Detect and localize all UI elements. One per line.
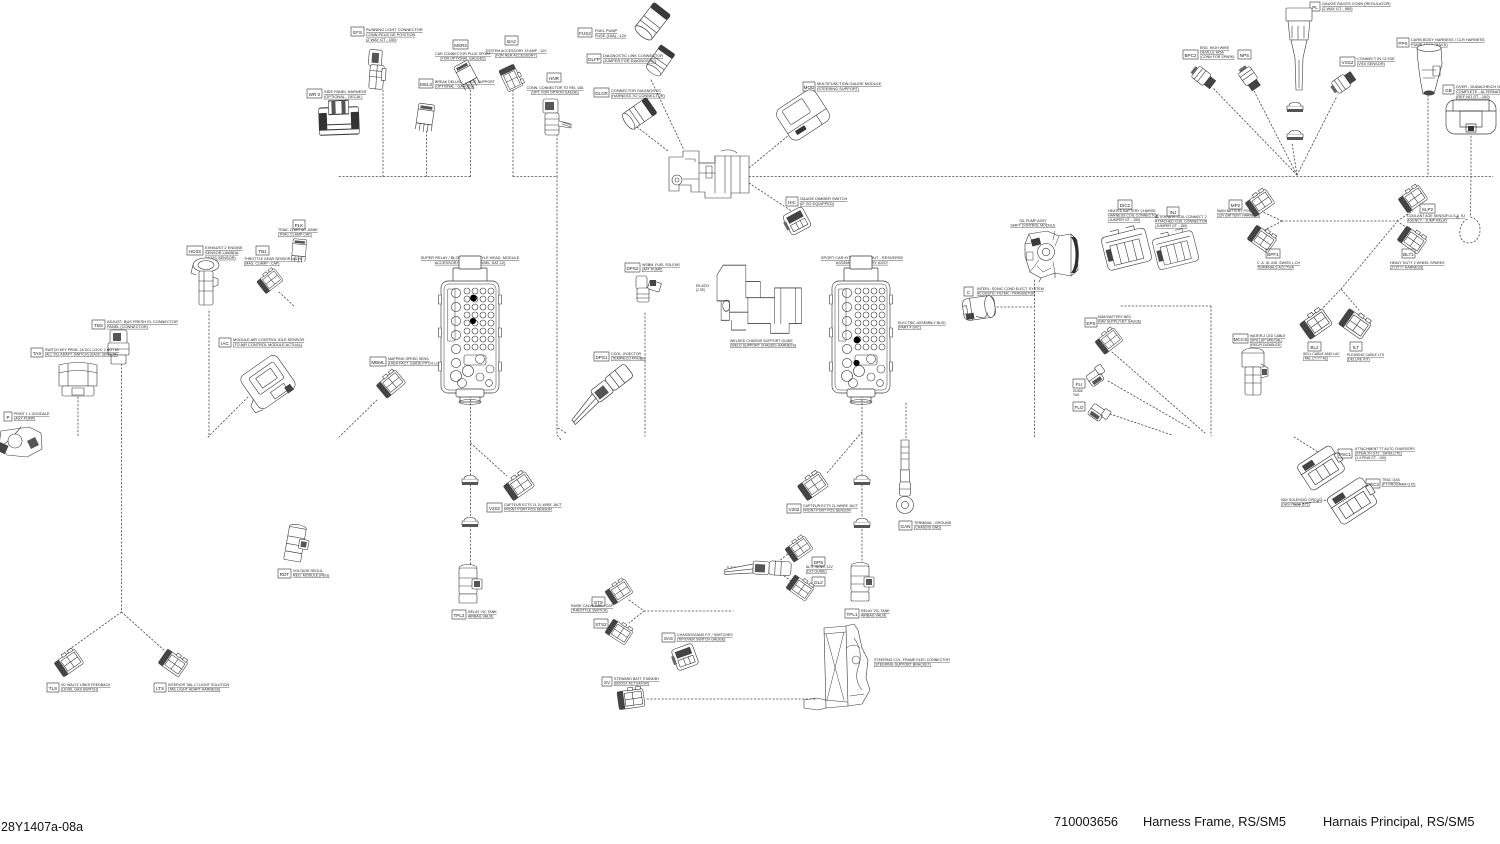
wire capacitor link [997,306,1034,308]
text DPS1 description [611,352,646,361]
label HO2S [187,246,203,255]
wire HO2S drop [208,311,210,437]
connector V2S2 [502,469,535,501]
svg-text:WSBM. FUEL SOLENS: WSBM. FUEL SOLENS [642,263,680,267]
connector TBS [108,330,129,364]
text SV description [614,677,660,686]
svg-text:DPS1: DPS1 [595,355,607,360]
label MSR2 [453,40,468,49]
svg-text:MBML: MBML [371,360,385,365]
svg-text:NAV SOLENOID CIRCUIT: NAV SOLENOID CIRCUIT [1281,498,1323,502]
connector V202 [796,469,829,501]
text RDT description [293,569,329,578]
wire EPS diagonal [1112,352,1205,433]
connector FUS2 fuse holder lower [644,44,675,78]
svg-text:GB: GB [1445,88,1452,93]
text fuse box 1 header [421,255,520,265]
wire STS horizontal [644,610,733,612]
text LTS description [168,683,229,692]
wire HNR line down to mid fold [557,177,562,442]
label PSC2 [1366,479,1380,488]
svg-text:DIC2: DIC2 [1120,203,1131,208]
throttle body assembly [1025,231,1079,282]
clip line2 upper [854,475,870,485]
svg-text:MAIN BATTERY POS: MAIN BATTERY POS [1217,209,1252,213]
fuse box 2 [830,256,893,405]
svg-text:(2 WAY GT - 950): (2 WAY GT - 950) [1322,6,1353,11]
label GAN [899,521,912,530]
label FLO [1073,402,1085,411]
svg-text:710003656: 710003656 [1054,814,1118,829]
text MCCS description [1250,334,1286,347]
svg-text:DEVILLE HI5A: DEVILLE HI5A [1200,51,1224,55]
label PLK [293,220,305,229]
svg-text:THROTTLE GEAR SENSOR VALVE: THROTTLE GEAR SENSOR VALVE [244,257,303,261]
svg-text:BPF1: BPF1 [1267,252,1279,257]
wire loop terminal [1460,217,1480,243]
svg-text:STEWARD BATT STANDBY: STEWARD BATT STANDBY [614,677,660,681]
svg-text:OIL PUMP ASSY: OIL PUMP ASSY [1019,219,1047,223]
svg-text:ALTI. SENS. 12V: ALTI. SENS. 12V [806,565,833,569]
connector EPS [1093,326,1123,355]
svg-text:PPS: PPS [1398,41,1407,46]
wire TB1 short diagonal [279,292,295,307]
wire STS fork [629,600,644,623]
ecu mounting bracket [804,624,870,710]
svg-text:(BOOST ACTUATOR): (BOOST ACTUATOR) [614,682,649,686]
svg-text:EFS: EFS [353,30,362,35]
connector TAS [59,363,97,397]
svg-text:BA2: BA2 [507,39,516,44]
svg-text:VD WALTZ LINES FEEDBACK: VD WALTZ LINES FEEDBACK [61,683,111,687]
label SAS [662,633,675,642]
svg-text:(CHASSIS GND): (CHASSIS GND) [914,526,941,530]
svg-text:V2S2: V2S2 [489,506,501,511]
svg-text:EPS: EPS [1086,321,1095,326]
wire bus down to loop [1470,177,1473,218]
wire junction to SLP2 [1397,211,1413,221]
wire BA2 drop [512,90,514,177]
svg-text:ALTERNATE COIL CONNECT 2: ALTERNATE COIL CONNECT 2 [1155,215,1207,219]
text PSC1 description [1355,447,1415,460]
wire MSL3 drop [426,131,428,177]
label GB [1443,85,1454,94]
svg-text:PANEL (CONNECTOR): PANEL (CONNECTOR) [107,324,149,329]
label TLS [47,683,59,692]
svg-text:WELDED CHASSIS SUPPORT GUIDE: WELDED CHASSIS SUPPORT GUIDE [730,339,793,343]
connector PPS funnel [1417,45,1442,96]
wire TAS short drop [77,397,79,436]
label PSC1 [1338,449,1352,458]
svg-text:ATTACHMENT TT AUTO CHARGERS: ATTACHMENT TT AUTO CHARGERS [1355,447,1415,451]
text P description [14,412,50,421]
label TBS [92,320,105,329]
svg-text:CAPTEUR ECTS 2L 2L WIRE JACT: CAPTEUR ECTS 2L 2L WIRE JACT [504,503,563,507]
text INJ description [1155,215,1208,228]
wire sub-bus MP2/SLP2 [1282,220,1397,222]
svg-text:MAPPING SPEED SENS.: MAPPING SPEED SENS. [388,357,430,361]
text PL description [1322,1,1391,11]
text C description [977,287,1044,296]
svg-text:HARNESS COIL CONNECTOR: HARNESS COIL CONNECTOR [1108,214,1159,218]
text EFS description [366,27,423,42]
svg-text:(DELUXE KIT): (DELUXE KIT) [1347,358,1370,362]
svg-text:(FT PROGRAM GT2): (FT PROGRAM GT2) [1382,483,1415,487]
svg-text:(REF NO GT - 100): (REF NO GT - 100) [1456,94,1490,99]
svg-text:(HARNESS TO CONNECTOR): (HARNESS TO CONNECTOR) [611,93,666,98]
text MOD description [817,81,882,91]
svg-text:(VSS SENSOR): (VSS SENSOR) [1357,61,1386,66]
svg-text:(HIGH FACT. GUIDE PITCH LOW): (HIGH FACT. GUIDE PITCH LOW) [388,362,444,366]
wire corner vertical [1210,306,1212,436]
text FUS2 description [595,28,627,38]
clip PL lower [1287,130,1303,140]
svg-text:CAR CONNECTOR PLUG SPORT: CAR CONNECTOR PLUG SPORT [435,52,492,56]
text BL description [1303,352,1340,361]
svg-text:CHASSIS/GANG FIT / SWITCHES: CHASSIS/GANG FIT / SWITCHES [677,633,733,637]
svg-text:PLEASING CABLE LTS: PLEASING CABLE LTS [1347,353,1385,357]
svg-text:MSR2: MSR2 [454,43,467,48]
label STS2 [594,619,608,628]
text SLP2 description [1407,214,1465,223]
capacitor C [962,295,997,321]
svg-text:MSL3: MSL3 [420,82,432,87]
svg-text:(JUMPER GT - 150): (JUMPER GT - 150) [1155,224,1187,228]
wire BL-ILT V branch [1321,289,1359,310]
connector MBML [375,368,406,399]
label BPC2 [1183,50,1198,59]
label MBML [370,357,386,366]
text TLS description [61,683,111,692]
wire GB drop to bus [1470,136,1472,177]
svg-text:TRAC GAS: TRAC GAS [1382,478,1401,482]
text BLT1 description [1390,261,1445,270]
text HIC description [800,196,848,206]
svg-text:GAN: GAN [901,524,911,529]
text V202 description [803,504,859,513]
svg-text:(FOR OPTIONAL GAUGES): (FOR OPTIONAL GAUGES) [440,57,485,61]
label MSL3 [419,79,433,88]
svg-text:AIRBAG VALVE: AIRBAG VALVE [468,615,494,619]
text MBML description [388,357,444,366]
label NPS [1238,50,1251,59]
svg-text:COOL. INJECTOR: COOL. INJECTOR [611,352,641,356]
label LTS [154,683,166,692]
svg-text:(NAV SUPPLY/JET GAUGE): (NAV SUPPLY/JET GAUGE) [1098,319,1141,323]
svg-text:ACOUSTIC FILTER - TRANSISTOR: ACOUSTIC FILTER - TRANSISTOR [977,292,1035,296]
text GB description [1456,84,1500,99]
part TPL2 [459,565,482,604]
svg-text:RDT: RDT [280,572,290,577]
wire main bus left segment A [339,176,471,178]
svg-text:(STEALTH GT2 - SATELLITE): (STEALTH GT2 - SATELLITE) [1355,452,1402,456]
text HO2S description [205,245,243,260]
svg-text:TLS: TLS [49,686,57,691]
connector HNR [543,99,571,135]
text EPS description [1098,315,1141,323]
svg-text:TAG: TAG [1073,393,1080,397]
label IAC [219,338,231,347]
label HIC [786,197,798,206]
svg-text:VOLTAGE REGUL.: VOLTAGE REGUL. [293,569,324,573]
coil pack DIC2 [1100,223,1153,271]
text PSC2 description [1382,478,1415,487]
svg-text:MOD: MOD [804,85,815,90]
svg-text:HNR: HNR [549,76,560,81]
svg-text:FRONT PORT POS SENSOR: FRONT PORT POS SENSOR [803,509,851,513]
wire HNR drop [556,131,558,177]
connector BA2 [499,63,526,92]
text V2S2 description [504,503,563,512]
label TPL1 [845,609,859,618]
label DPS [812,557,825,566]
svg-text:AGENCY - JUMP RELAY: AGENCY - JUMP RELAY [1407,219,1448,223]
text MSR2 description [435,52,492,61]
wire TBS long drop [121,364,123,612]
svg-text:WATER-2 LED CABLE: WATER-2 LED CABLE [1250,334,1286,338]
wire SV horizontal [647,698,817,700]
wire bracket to HIC [749,183,793,212]
svg-text:(2 SE): (2 SE) [696,288,705,292]
svg-text:CAPTEUR ECTS 2L 4WIRE JACT: CAPTEUR ECTS 2L 4WIRE JACT [803,504,859,508]
wire fork to LTS [122,612,166,651]
svg-text:BPC2: BPC2 [1184,53,1196,58]
svg-text:MCCS: MCCS [1234,337,1248,342]
label VSS2 [1340,57,1355,66]
coil pack INJ [1151,226,1200,270]
connector MSR2 [453,60,480,92]
wire fusebox2 branch to V202 [827,432,862,473]
text TBS description [107,319,178,329]
svg-text:TB1: TB1 [258,249,267,254]
part TPL1 [851,563,874,602]
connector BL [1298,306,1333,339]
wire junction to MP2 [1263,212,1282,221]
connector GB big [1446,100,1496,134]
svg-text:(FOR RER ACCESSORY): (FOR RER ACCESSORY) [495,54,537,58]
label DPS1 [594,352,609,361]
svg-text:REG. MODULE (REG): REG. MODULE (REG) [293,574,329,578]
svg-text:FUS2: FUS2 [579,31,591,36]
connector TLS [53,647,84,677]
svg-text:ATTACHED COIL CONNECTOR: ATTACHED COIL CONNECTOR [1155,220,1208,224]
text ER bracket description [730,339,796,348]
svg-text:RELAY VIC TANK: RELAY VIC TANK [468,610,497,614]
text ecu bracket description [874,658,950,667]
svg-text:(JUMPER FOR DIAGNOSTIC): (JUMPER FOR DIAGNOSTIC) [603,58,657,63]
text BA2 description [485,49,547,58]
svg-text:(STEERING SUPPORT BRACKET): (STEERING SUPPORT BRACKET) [874,663,931,667]
wire MBML diagonal [339,400,377,437]
connector MSL3 [415,103,435,133]
svg-text:P: P [6,415,9,420]
svg-text:(2Y2T?? HARNESS): (2Y2T?? HARNESS) [1390,266,1423,270]
text TAS description [45,348,120,357]
label DPS2 [625,263,640,272]
wire fusebox1 drop [470,396,472,565]
text BPF1 description [1257,261,1301,270]
svg-text:LTS: LTS [156,686,164,691]
label EFS [351,27,364,36]
label TAS [31,348,43,357]
label DLCR [594,88,609,97]
module MOD [774,87,833,143]
svg-text:RELAY VIC TANK: RELAY VIC TANK [861,609,890,613]
injector DPS nozzle [725,558,792,577]
clip PL upper [1287,102,1303,112]
wire junction to BPF1 [1263,221,1282,231]
wire throttle drop [1034,280,1036,437]
text MSL3 description [435,80,496,89]
ground terminal GAN [897,440,914,514]
svg-text:(DLT GUIDE): (DLT GUIDE) [806,570,827,574]
label RDT [278,569,291,578]
svg-text:INTERL. SONIC COND ELECT. SYST: INTERL. SONIC COND ELECT. SYSTEM [977,287,1044,291]
svg-text:(SPILLUP SPECIAL): (SPILLUP SPECIAL) [1250,339,1282,343]
wire GAN drop [905,403,907,440]
frame bracket center [669,150,749,198]
pump P [0,427,42,457]
connector PSC1 [1296,443,1348,492]
wire fusebox2 drop [861,396,863,565]
wire main bus left segment B [513,176,557,178]
svg-text:FLI: FLI [1076,382,1083,387]
connector PLK [291,239,307,264]
text PPS description [1411,37,1485,47]
connector FLI [1084,364,1108,387]
text TPL2 description [468,610,497,619]
svg-text:C. A. ID. AID. SWISS L-CH: C. A. ID. AID. SWISS L-CH [1257,261,1301,265]
svg-text:V202: V202 [789,507,800,512]
svg-text:WR-2: WR-2 [309,92,321,97]
block IAC [234,353,298,415]
svg-text:Harness Frame, RS/SM5: Harness Frame, RS/SM5 [1143,814,1286,829]
svg-text:(OPTIONAL - DECAL): (OPTIONAL - DECAL) [324,94,363,99]
part RDT regulator [284,523,312,563]
text throttle description [1010,219,1056,228]
text SLP2 A marker [1456,215,1459,220]
svg-text:ILT: ILT [1353,345,1359,350]
svg-text:(TO AIR CONTROL MODULE ACTUAL): (TO AIR CONTROL MODULE ACTUAL) [233,342,303,347]
text ER bracket small label [696,284,711,292]
text fuse box 2 header [821,255,904,265]
svg-text:Harnais Principal, RS/SM5: Harnais Principal, RS/SM5 [1323,814,1474,829]
text PSC left description [1281,498,1323,507]
svg-text:RAISE CALVE BRK / CAP: RAISE CALVE BRK / CAP [571,604,614,608]
svg-text:PL: PL [1312,5,1318,10]
svg-text:FRONT PORT POS SENSOR: FRONT PORT POS SENSOR [504,508,552,512]
label BA2 [505,36,518,45]
wire convergence to BPC2 [1213,88,1297,175]
text DLCR description [611,88,666,98]
text DLFP description [603,53,663,63]
text BPC2 description [1200,46,1234,59]
svg-text:(IF SO EQUIPPED): (IF SO EQUIPPED) [800,201,835,206]
connector DLCR canister [620,97,658,132]
black dot fuse box 1 lower [470,318,476,324]
svg-text:SWITCH KEY PROB. 2A DCL LOCK,: SWITCH KEY PROB. 2A DCL LOCK, 2 NOT AV [45,348,120,352]
svg-text:ELECTRIC ASSEMBLY BLVD: ELECTRIC ASSEMBLY BLVD [898,321,946,325]
text DPS2 description [642,263,680,272]
wire BL-ILT riser to sub-bus [1341,223,1396,289]
svg-text:(PART # SVC): (PART # SVC) [898,326,921,330]
wire convergence to NPS [1254,91,1297,175]
svg-text:STEERING COL. FRAME ELEC CONNE: STEERING COL. FRAME ELEC CONNECTOR [874,658,950,662]
label P pump [4,412,12,421]
svg-text:(LEVEL GAS SWITCH): (LEVEL GAS SWITCH) [61,688,98,692]
wire EFS drop [382,90,384,177]
svg-text:ENG. HIGH WIRE: ENG. HIGH WIRE [1200,46,1230,50]
wire injector tip dashes [727,566,736,568]
connector HIC [780,206,812,237]
label BL [1308,342,1321,351]
wire bracket to MOD [749,135,789,168]
text ILT description [1347,353,1385,362]
label DL2 [812,577,825,586]
label WR-2 [307,89,322,98]
svg-text:(CONN FOR SPARK): (CONN FOR SPARK) [1200,55,1234,59]
svg-text:A: A [1456,215,1459,220]
svg-text:(1 4 PINS GT - 150): (1 4 PINS GT - 150) [1355,456,1386,460]
connector LTS [158,647,189,677]
connector BLT1 [1397,224,1428,254]
wire injector V to DL2 [772,567,791,581]
sensor HO2S oxygen [191,258,219,305]
wire DPS2 drop [644,313,646,436]
svg-text:DL2: DL2 [814,580,823,585]
svg-text:FLO: FLO [1075,405,1084,410]
text HNR description [527,86,584,95]
svg-text:(THROTTLE SWITCH): (THROTTLE SWITCH) [571,609,608,613]
wire FUS2 diagonal to frame bracket [651,80,684,150]
wire fork to TLS [67,612,122,651]
svg-text:SHIFT CONTROL MODULE: SHIFT CONTROL MODULE [1010,224,1056,228]
connector SAS [669,643,699,672]
label PPS [1397,38,1409,47]
svg-text:28Y1407a-08a: 28Y1407a-08a [1,820,83,834]
wire injector V to DPS [772,552,790,567]
svg-text:MAIN BATTERY NEG: MAIN BATTERY NEG [1098,315,1131,319]
fuse box 1 [439,256,502,405]
label EPS [1085,318,1097,327]
svg-text:AIRBAG VALVE: AIRBAG VALVE [861,614,887,618]
label INJ [1167,207,1179,216]
text VSS2 description [1357,56,1395,66]
wire corner horizontal [1121,305,1211,307]
svg-text:(GAS PROG GT2): (GAS PROG GT2) [1281,503,1310,507]
svg-text:HO2S: HO2S [189,249,202,254]
label V202 [787,504,801,513]
label ILT [1350,342,1362,351]
text TPL1 description [861,609,890,618]
connector DPS [783,534,813,563]
svg-text:DLFP: DLFP [588,57,600,62]
wire DPS1 tip dashes [558,428,566,433]
wire junction to BLT1 [1397,221,1410,230]
spark plug tower PL [1286,8,1312,90]
svg-text:DPS2: DPS2 [626,266,638,271]
connector WR-2 fuse strip [318,100,359,135]
label SLP2 [1420,204,1435,213]
text SAS description [677,633,733,642]
svg-text:TRIAC 2) ARTIAT. ASME: TRIAC 2) ARTIAT. ASME [278,228,318,232]
svg-text:TBS: TBS [94,323,103,328]
wire convergence to PL clips [1292,143,1297,175]
connector DL2 [786,573,816,602]
svg-text:FUSE (15A) - 12V: FUSE (15A) - 12V [595,33,627,38]
label TPL2 [452,610,466,619]
connector BPF1 [1247,223,1278,253]
